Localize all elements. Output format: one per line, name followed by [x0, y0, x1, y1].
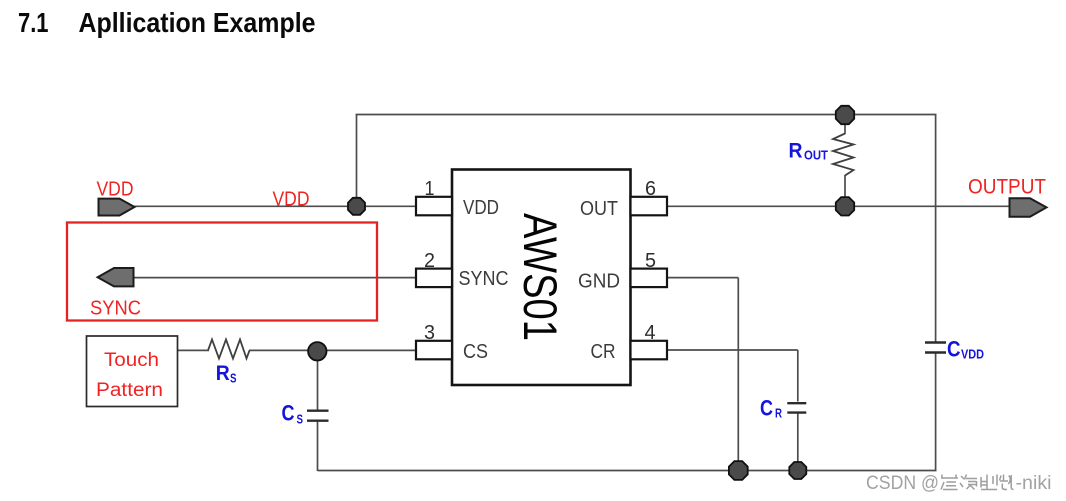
svg-text:C: C: [947, 337, 961, 362]
svg-text:CS: CS: [463, 341, 488, 363]
wire ROUT top lead: [844, 115, 846, 134]
svg-text:VDD: VDD: [961, 348, 984, 362]
pin 1 box: [416, 197, 452, 216]
node junction GND bottom: [729, 461, 748, 480]
svg-text:7.1: 7.1: [18, 7, 49, 38]
resistor RS: [208, 340, 250, 359]
wire CS cap to bottom rail: [317, 421, 319, 471]
svg-text:-niki: -niki: [1016, 472, 1052, 494]
wire CS node down to CS cap: [317, 351, 319, 410]
wire CR cap to bottom rail: [797, 413, 799, 471]
svg-text:VDD: VDD: [273, 189, 310, 211]
svg-text:OUT: OUT: [804, 149, 828, 163]
wire CR pin4 right: [667, 349, 798, 351]
capacitor CS: [307, 411, 329, 421]
pin 3 box: [416, 341, 452, 360]
wire right vertical lower (C_VDD bottom to bottom rail): [935, 353, 937, 471]
resistor ROUT: [833, 134, 854, 176]
wire GND down to bottom rail: [737, 278, 739, 471]
wire ROUT bottom lead: [844, 175, 846, 206]
svg-text:1: 1: [425, 178, 435, 200]
wire VDD input to pin1: [131, 205, 416, 207]
node junction VDD: [348, 198, 365, 215]
label ROUT: [789, 140, 829, 163]
Touch Pattern box: [87, 336, 178, 407]
IC U1 AWS01 body: [452, 170, 631, 386]
svg-text:4: 4: [645, 322, 656, 344]
svg-text:Pattern: Pattern: [96, 380, 163, 401]
node junction CS: [308, 342, 326, 360]
node junction CR bottom: [789, 462, 806, 479]
wire top rail: [356, 114, 937, 116]
svg-text:C: C: [760, 396, 773, 421]
svg-text:S: S: [297, 413, 304, 427]
svg-text:OUT: OUT: [580, 198, 618, 220]
node junction ROUT bottom / OUT: [836, 197, 854, 215]
capacitor CVDD: [925, 343, 946, 353]
svg-text:R: R: [775, 407, 782, 421]
title 7.1 Apllication Example: [18, 7, 316, 38]
svg-text:VDD: VDD: [97, 179, 134, 201]
svg-text:AWS01: AWS01: [514, 213, 567, 341]
svg-text:R: R: [789, 140, 803, 163]
watermark CJK glyphs: [941, 475, 1014, 490]
svg-text:S: S: [230, 372, 237, 386]
SYNC output arrow: [98, 268, 134, 286]
wire VDD node up: [356, 115, 358, 207]
wire OUT pin6 to OUTPUT: [667, 205, 1010, 207]
pin 5 box: [631, 269, 668, 288]
wire right vertical upper (to C_VDD top plate): [935, 115, 937, 343]
pin 4 box: [631, 341, 668, 360]
svg-text:5: 5: [645, 250, 656, 272]
svg-text:2: 2: [424, 250, 435, 272]
svg-text:VDD: VDD: [463, 197, 499, 219]
svg-text:Apllication Example: Apllication Example: [79, 7, 316, 38]
svg-text:Touch: Touch: [104, 350, 159, 371]
svg-text:OUTPUT: OUTPUT: [968, 176, 1046, 199]
svg-text:CSDN @: CSDN @: [866, 472, 939, 494]
wire bottom rail: [318, 470, 937, 472]
label RS: [216, 362, 237, 386]
pin 6 box: [631, 197, 668, 216]
OUTPUT arrow: [1010, 198, 1047, 217]
svg-text:SYNC: SYNC: [90, 297, 141, 320]
svg-text:R: R: [216, 362, 230, 385]
svg-text:C: C: [282, 401, 295, 426]
wire RS to pin3: [249, 349, 416, 351]
svg-text:GND: GND: [578, 271, 620, 293]
pin 2 box: [416, 269, 452, 288]
wire GND pin5 right: [667, 277, 738, 279]
label CS: [282, 401, 304, 427]
watermark CSDN: [866, 472, 1052, 494]
node junction ROUT top: [836, 106, 854, 124]
wire Touch Pattern to resistor RS: [177, 349, 209, 351]
red highlight box around SYNC: [67, 223, 377, 321]
svg-text:SYNC: SYNC: [459, 268, 509, 290]
wire CR down to cap: [797, 350, 799, 402]
svg-text:6: 6: [645, 178, 656, 200]
label CVDD: [947, 337, 984, 362]
VDD input arrow: [99, 199, 135, 216]
svg-text:CR: CR: [591, 341, 616, 363]
label CR: [760, 396, 782, 421]
capacitor CR: [787, 403, 806, 412]
wire SYNC pin2 to arrow: [133, 277, 416, 279]
svg-text:3: 3: [424, 322, 435, 344]
